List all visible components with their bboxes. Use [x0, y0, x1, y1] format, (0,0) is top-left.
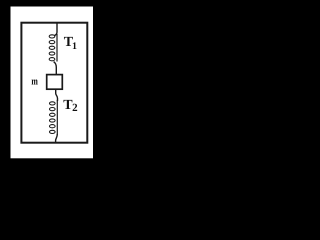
wire top (frame to spring T1)	[54, 23, 57, 36]
spring T2 coil	[50, 102, 56, 134]
wire bottom (spring T2 to frame)	[56, 134, 58, 143]
spring T1 coil	[49, 35, 55, 61]
spring T1 right side wire	[56, 34, 58, 62]
spring T2 right side wire	[56, 100, 58, 135]
mass m block	[47, 75, 63, 90]
white panel	[11, 7, 94, 159]
svg-text:m: m	[31, 77, 38, 88]
background	[0, 0, 106, 173]
frame (outer box)	[21, 23, 87, 143]
label m	[31, 77, 38, 88]
wire (block to spring T2)	[56, 90, 58, 102]
wire (spring T1 to block)	[54, 62, 57, 75]
